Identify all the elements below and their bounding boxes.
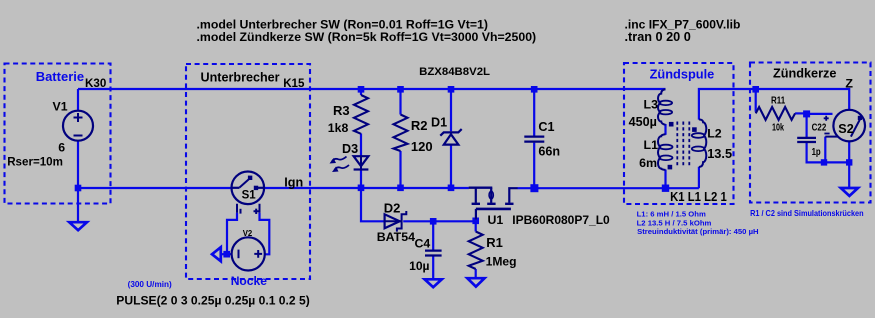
- svg-text:IPB60R080P7_L0: IPB60R080P7_L0: [512, 213, 610, 227]
- mosfet source foot: [472, 203, 480, 205]
- svg-text:BZX84B8V2L: BZX84B8V2L: [419, 66, 490, 78]
- svg-text:13.5: 13.5: [707, 146, 732, 161]
- S2 lever: [851, 119, 861, 137]
- resistor R3: [354, 95, 368, 134]
- wire L1 bottom to K1: [664, 170, 666, 189]
- wire C1 bottom: [533, 143, 535, 189]
- resistor R2: [394, 115, 408, 152]
- svg-text:66n: 66n: [538, 144, 560, 158]
- svg-text:6: 6: [58, 140, 65, 154]
- svg-text:V2: V2: [243, 229, 253, 238]
- S1 plus tick: [254, 209, 259, 214]
- svg-text:Z: Z: [845, 77, 853, 91]
- wire L3-L1 series link: [664, 124, 666, 135]
- svg-text:1p: 1p: [812, 147, 821, 158]
- wire D2 to gate: [403, 220, 475, 222]
- D3 light arrow 1: [332, 157, 347, 162]
- node gate: [472, 218, 479, 225]
- switch S2 circle: [833, 110, 865, 142]
- resistor R1: [469, 232, 483, 270]
- V1 minus: [74, 135, 83, 137]
- zener D1 triangle: [444, 134, 459, 144]
- wire drain to C1 bottom node: [518, 187, 535, 189]
- svg-text:Rser=10m: Rser=10m: [7, 155, 63, 168]
- S2 lower control stub: [825, 136, 837, 138]
- wire C22 bottom to S2 bottom: [807, 143, 850, 163]
- wire R11 to C22 node: [795, 112, 807, 114]
- S1 right lead stub: [256, 187, 264, 189]
- S2 plus tick: [824, 116, 829, 121]
- junction nodes (bright blue squares): [75, 86, 853, 258]
- wire S1 right control: [260, 213, 270, 255]
- zener D1 bar with wings: [440, 129, 461, 136]
- inductor L2: [699, 119, 706, 167]
- svg-text:L2 13.5 H / 7.5 kOhm: L2 13.5 H / 7.5 kOhm: [637, 218, 712, 227]
- svg-text:10µ: 10µ: [409, 259, 429, 273]
- wire L2 riser top: [699, 89, 849, 120]
- mosfet drain foot: [505, 203, 513, 205]
- V2 minus (rotated): [238, 250, 240, 259]
- svg-text:L3: L3: [644, 97, 659, 111]
- wire R2 branch top: [399, 89, 401, 115]
- node C1 top: [531, 86, 538, 93]
- wire top rail K30/K15: [78, 88, 666, 90]
- node S2 bottom: [846, 159, 852, 165]
- node V2 ground: [223, 251, 230, 258]
- filled navy bits: [248, 116, 862, 190]
- S1 lever: [240, 178, 251, 188]
- wire R11 tap down: [755, 89, 757, 112]
- node R11 C22: [803, 110, 810, 117]
- svg-text:L1: L1: [644, 138, 659, 152]
- node R3 bottom: [358, 185, 365, 192]
- mosfet drain elbow: [509, 188, 517, 203]
- wire battery bottom lead: [77, 141, 79, 222]
- wire C22 top: [805, 114, 807, 137]
- diode D3 bar: [354, 168, 369, 170]
- capacitor C1 plates: [524, 137, 544, 142]
- ground below battery: [69, 222, 87, 230]
- svg-text:Unterbrecher: Unterbrecher: [201, 70, 280, 84]
- wire R3 branch top: [360, 89, 362, 95]
- wire battery top lead: [77, 89, 79, 111]
- ground below C4: [425, 279, 442, 287]
- mosfet gate bar: [476, 208, 511, 211]
- svg-text:L2: L2: [707, 127, 722, 141]
- mosfet U1 source run: [469, 186, 493, 188]
- svg-text:BAT54: BAT54: [377, 230, 415, 244]
- mosfet body foot: [487, 203, 495, 205]
- D3 lead through: [360, 156, 362, 170]
- svg-text:D3: D3: [342, 142, 358, 156]
- wire C4 top: [432, 221, 434, 250]
- svg-text:1Meg: 1Meg: [486, 255, 517, 269]
- svg-text:S1: S1: [242, 189, 257, 201]
- L2 phase dot: [692, 127, 697, 132]
- svg-text:C22: C22: [812, 122, 827, 133]
- S1 contact dot: [254, 186, 258, 190]
- resistor R11 (horizontal): [756, 107, 795, 120]
- svg-text:K15: K15: [283, 77, 305, 90]
- wire R1 bottom stub: [475, 269, 477, 277]
- svg-text:D1: D1: [431, 116, 447, 130]
- svg-text:D2: D2: [384, 200, 401, 215]
- voltage source V1 circle: [63, 111, 93, 141]
- svg-text:C1: C1: [538, 120, 554, 134]
- wire R3 to D3: [360, 134, 362, 157]
- mosfet gate lead: [475, 209, 477, 220]
- L1 phase dot: [668, 165, 673, 170]
- S1 minus tick: [240, 209, 242, 214]
- svg-text:R3: R3: [333, 103, 350, 118]
- wire bottom rail left of S1: [78, 187, 232, 189]
- node R2 top: [397, 86, 404, 93]
- node battery minus: [75, 185, 82, 192]
- S1 lever dot: [248, 176, 252, 180]
- svg-text:L1: 6 mH / 1.5 Ohm: L1: 6 mH / 1.5 Ohm: [637, 210, 706, 219]
- svg-text:R2: R2: [411, 118, 428, 133]
- node K1: [662, 185, 669, 192]
- D3 arrowhead 1: [330, 158, 337, 164]
- switch S1 circle: [232, 172, 265, 205]
- svg-text:120: 120: [411, 139, 433, 154]
- svg-text:6m: 6m: [639, 156, 657, 170]
- svg-text:Zündkerze: Zündkerze: [773, 67, 836, 81]
- svg-text:K1 L1 L2 1: K1 L1 L2 1: [670, 190, 727, 204]
- wire L2 bottom: [698, 167, 700, 188]
- dashed box Unterbrecher: [186, 64, 310, 279]
- wire D1 top: [450, 89, 452, 131]
- svg-text:1k8: 1k8: [328, 121, 349, 135]
- svg-text:Streuinduktivität (primär): 45: Streuinduktivität (primär): 450 µH: [637, 227, 759, 236]
- node drain / C1 bottom: [530, 184, 538, 192]
- D3 arrowhead 2: [332, 167, 339, 173]
- svg-text:U1: U1: [488, 213, 504, 227]
- node C22 bottom: [821, 159, 827, 165]
- mosfet body post: [490, 188, 492, 203]
- inductor L1: [658, 134, 665, 170]
- node R2 bottom: [397, 185, 404, 192]
- mosfet body arrow: [489, 191, 493, 199]
- diode D2 schottky bar: [397, 211, 406, 232]
- transformer core dashed lines: [677, 122, 689, 167]
- wire D1 bottom: [450, 145, 452, 188]
- D3 light arrow 2: [335, 165, 350, 170]
- wire D3 to rail: [360, 170, 362, 188]
- svg-text:Nocke: Nocke: [231, 274, 268, 288]
- capacitor C22 plates: [797, 138, 816, 142]
- svg-text:450µ: 450µ: [629, 115, 657, 129]
- wire S2 bottom: [848, 141, 850, 187]
- ground below R1: [467, 278, 484, 286]
- L3 phase dot: [669, 122, 674, 127]
- wire Ign rail S1 to mosfet source: [264, 187, 469, 189]
- svg-text:(300 U/min): (300 U/min): [128, 280, 172, 289]
- capacitor C4 plates: [425, 251, 442, 256]
- V1 plus: [74, 113, 83, 122]
- mosfet source post: [475, 188, 477, 203]
- inductor L3: [658, 89, 665, 124]
- svg-text:V1: V1: [53, 99, 68, 113]
- node Zuendkerze rail: [752, 86, 759, 93]
- wire S1 left control: [227, 213, 237, 254]
- dashed box Batterie: [5, 64, 111, 204]
- diode D2 lead through: [385, 220, 402, 222]
- svg-text:R1: R1: [486, 235, 503, 250]
- node R3 top: [358, 86, 365, 93]
- svg-text:S2: S2: [838, 122, 853, 136]
- svg-text:.tran 0 20 0: .tran 0 20 0: [625, 30, 691, 44]
- V2 plus: [254, 250, 262, 258]
- dashed box Zuendkerze: [750, 63, 871, 203]
- wire C4 bottom stub: [432, 256, 434, 279]
- wire D2 branch tap: [361, 188, 385, 221]
- wire R1 top: [475, 221, 477, 232]
- svg-text:PULSE(2 0 3 0.25µ 0.25µ 0.1 0.: PULSE(2 0 3 0.25µ 0.25µ 0.1 0.2 5): [116, 294, 309, 308]
- node D1 top: [448, 86, 455, 93]
- ground at V2 (rotated left): [212, 247, 221, 261]
- svg-text:Zündspule: Zündspule: [650, 66, 715, 81]
- S2 lever dot: [858, 116, 862, 120]
- svg-text:K30: K30: [85, 77, 106, 90]
- wire R2 bottom: [399, 151, 401, 188]
- voltage source V2 circle: [232, 237, 265, 270]
- node D2 C4: [430, 218, 437, 225]
- dashed box Zuendspule: [624, 63, 734, 204]
- diode D3 triangle: [354, 156, 369, 166]
- ground below S2: [841, 188, 858, 196]
- S2 minus tick: [824, 133, 829, 135]
- S1 left lead stub: [232, 187, 240, 189]
- wire node to S2 plus control: [807, 113, 833, 115]
- wire S2 lower control drop: [824, 137, 826, 163]
- wire V2 left terminal: [227, 253, 232, 255]
- diode D2 triangle: [385, 214, 400, 228]
- svg-text:Batterie: Batterie: [36, 69, 84, 84]
- svg-text:R1 / C2 sind Simulationskrücke: R1 / C2 sind Simulationskrücken: [750, 209, 864, 218]
- node D1 bottom: [448, 185, 455, 192]
- S1 control stubs: [237, 204, 260, 213]
- svg-text:.model Zündkerze SW (Ron=5k Ro: .model Zündkerze SW (Ron=5k Roff=1G Vt=3…: [197, 30, 537, 44]
- wire bottom rail to coil K1: [534, 187, 699, 189]
- svg-text:R11: R11: [771, 96, 786, 107]
- svg-text:Ign: Ign: [284, 175, 303, 189]
- wire V2 ground stub: [221, 253, 227, 255]
- svg-text:10k: 10k: [772, 122, 784, 133]
- wire C1 top: [533, 89, 535, 136]
- svg-text:C4: C4: [415, 236, 431, 250]
